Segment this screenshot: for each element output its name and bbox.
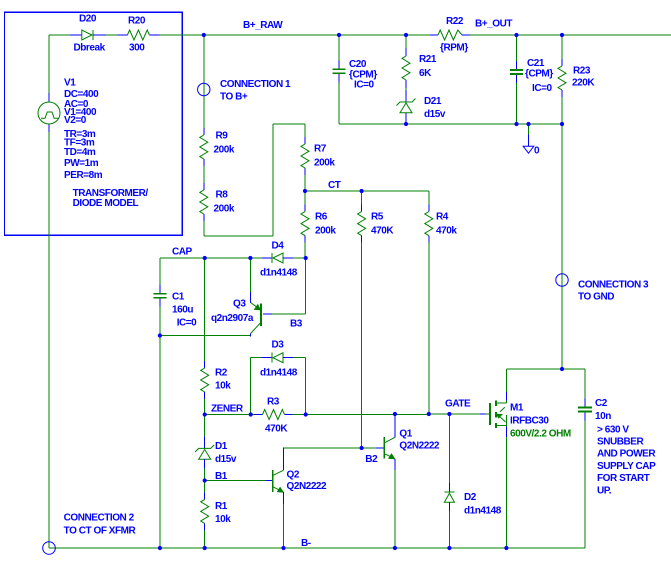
svg-text:R5: R5 bbox=[371, 212, 384, 223]
svg-text:TO B+: TO B+ bbox=[220, 91, 248, 102]
svg-text:10k: 10k bbox=[215, 381, 231, 392]
svg-text:R2: R2 bbox=[215, 368, 228, 379]
wire CT rail bbox=[305, 190, 429, 192]
label V1 params bbox=[64, 78, 103, 182]
connection 2 bubble bbox=[43, 542, 56, 555]
svg-text:R1: R1 bbox=[215, 501, 228, 512]
wire R2 branch bbox=[204, 258, 206, 361]
node B- / Q1 emitter bbox=[393, 546, 397, 550]
wire C1 top bbox=[159, 258, 161, 285]
wire C2 bottom to B- rail bbox=[584, 421, 586, 549]
capacitor C20 bbox=[333, 60, 346, 82]
ground symbol 0 bbox=[523, 146, 540, 157]
node drain loop / right drop bbox=[560, 367, 564, 371]
svg-text:PER=8m: PER=8m bbox=[64, 170, 103, 181]
label B2 bbox=[365, 454, 378, 465]
node ZENER / D3 right bbox=[304, 412, 308, 416]
svg-text:470k: 470k bbox=[436, 226, 457, 237]
label R3 bbox=[265, 397, 288, 435]
wire ground stem bbox=[528, 124, 530, 146]
capacitor C21 bbox=[510, 61, 523, 83]
svg-text:AND POWER: AND POWER bbox=[597, 448, 656, 459]
label R4 bbox=[436, 212, 457, 237]
vertical diode D2 bbox=[444, 483, 454, 511]
wire V1 top bbox=[48, 35, 50, 102]
svg-text:d15v: d15v bbox=[424, 109, 446, 120]
wire bottom rail B- bbox=[49, 547, 585, 549]
svg-text:CONNECTION 2: CONNECTION 2 bbox=[64, 513, 135, 524]
diode D20 bbox=[70, 30, 106, 40]
svg-text:470K: 470K bbox=[265, 424, 288, 435]
diode D4 bbox=[262, 253, 293, 263]
svg-text:Q1: Q1 bbox=[399, 429, 412, 440]
svg-text:{CPM}: {CPM} bbox=[525, 68, 553, 79]
wire Q2 emitter to B- rail bbox=[283, 504, 285, 548]
label transformer/diode model bbox=[73, 188, 149, 209]
node gate rail / R4 bbox=[427, 412, 431, 416]
svg-text:d1n4148: d1n4148 bbox=[260, 368, 298, 379]
transistor Q1 bbox=[384, 415, 395, 471]
svg-text:R4: R4 bbox=[436, 212, 449, 223]
label 300 bbox=[129, 43, 145, 54]
label B+_OUT bbox=[475, 19, 512, 30]
wire C20 branch bbox=[338, 35, 340, 60]
resistor R2 bbox=[201, 361, 209, 399]
resistor R9 bbox=[200, 128, 208, 166]
node CAP / R2 bbox=[203, 256, 207, 260]
svg-text:Dbreak: Dbreak bbox=[74, 43, 106, 54]
svg-text:C1: C1 bbox=[172, 292, 185, 303]
svg-text:470K: 470K bbox=[371, 226, 394, 237]
wire CT to R6 bbox=[304, 191, 306, 205]
svg-text:200k: 200k bbox=[214, 145, 235, 156]
resistor R8 bbox=[200, 183, 208, 221]
svg-text:160u: 160u bbox=[172, 304, 193, 315]
wire B2 rail bbox=[284, 447, 384, 449]
node B- / cap-loop bbox=[158, 546, 162, 550]
svg-text:R21: R21 bbox=[419, 54, 437, 65]
wire R6 to CAP node bbox=[304, 243, 306, 258]
svg-text:R9: R9 bbox=[216, 131, 229, 142]
wire Q1 emitter to B- rail bbox=[394, 470, 396, 548]
wire C21 bottom bbox=[516, 83, 518, 124]
wire ZENER rail bbox=[205, 413, 486, 416]
node B- / D2 bbox=[447, 546, 451, 550]
node CT / R5 bbox=[360, 189, 364, 193]
connection 3 bubble bbox=[556, 274, 568, 286]
node GATE / D2 bbox=[447, 412, 451, 416]
wire R21 to D21 bbox=[405, 88, 407, 90]
resistor R7 bbox=[301, 137, 309, 175]
svg-text:0: 0 bbox=[534, 146, 540, 157]
label R21 bbox=[419, 54, 437, 79]
wire C21 branch bbox=[516, 35, 518, 61]
label connection 2 bbox=[64, 513, 137, 537]
svg-text:CT: CT bbox=[328, 180, 341, 191]
wire R8 to corner loop bbox=[204, 124, 305, 236]
svg-text:CAP: CAP bbox=[172, 247, 193, 258]
wire D3 loop bbox=[251, 358, 306, 415]
wire top rail B+_RAW y=34 bbox=[49, 34, 671, 36]
resistor R3 bbox=[255, 410, 293, 420]
label D4 bbox=[260, 241, 298, 279]
node CT / R6 bbox=[303, 189, 307, 193]
label C1 bbox=[172, 292, 197, 329]
node gate rail / Q1 collector bbox=[393, 412, 397, 416]
label B1 bbox=[215, 471, 228, 482]
svg-text:IC=0: IC=0 bbox=[177, 317, 197, 328]
wire R1 to B- rail bbox=[204, 530, 206, 548]
svg-text:PW=1m: PW=1m bbox=[64, 158, 99, 169]
label R2 bbox=[215, 368, 231, 392]
wire R5 to B2 bbox=[361, 243, 363, 448]
svg-text:R3: R3 bbox=[267, 397, 280, 408]
wire ZENER down to D1 bbox=[204, 415, 206, 437]
label Q3 bbox=[211, 299, 254, 325]
wire M1 source to B- rail bbox=[505, 437, 507, 548]
capacitor C1 bbox=[153, 285, 166, 307]
svg-text:B+_RAW: B+_RAW bbox=[243, 20, 283, 31]
label D21 bbox=[424, 96, 446, 120]
wire B1 to R1 bbox=[204, 481, 206, 493]
svg-text:D3: D3 bbox=[272, 340, 285, 351]
wire R7 to CT bbox=[304, 175, 306, 191]
node top rail / C20 bbox=[337, 33, 341, 37]
resistor R21 bbox=[402, 48, 410, 88]
svg-text:CONNECTION 1: CONNECTION 1 bbox=[220, 79, 291, 90]
svg-text:TO CT OF XFMR: TO CT OF XFMR bbox=[64, 526, 137, 537]
svg-text:D20: D20 bbox=[79, 14, 97, 25]
label GATE bbox=[445, 399, 471, 410]
node B- / M1 source bbox=[504, 546, 508, 550]
svg-text:B1: B1 bbox=[215, 471, 228, 482]
mosfet M1 bbox=[486, 392, 507, 437]
wire cap-loop down to B- rail bbox=[159, 336, 161, 549]
node CAP / B3 drop bbox=[304, 256, 308, 260]
wire CT to R5 bbox=[361, 191, 363, 205]
svg-text:300: 300 bbox=[129, 43, 145, 54]
svg-text:10n: 10n bbox=[595, 411, 611, 422]
svg-text:d15v: d15v bbox=[215, 454, 237, 465]
node mid rail / ground bbox=[526, 122, 530, 126]
svg-text:C2: C2 bbox=[595, 398, 608, 409]
svg-text:R8: R8 bbox=[216, 190, 229, 201]
node CAP / Q3 emitter bbox=[248, 256, 252, 260]
svg-text:d1n4148: d1n4148 bbox=[464, 506, 502, 517]
wire CAP node down to B3 corner bbox=[263, 258, 306, 314]
wire R21 branch bbox=[405, 35, 407, 48]
wire connection1 branch x=204 bbox=[203, 35, 205, 128]
label D3 bbox=[260, 340, 298, 379]
svg-text:R22: R22 bbox=[446, 16, 464, 27]
label Q2 bbox=[287, 470, 328, 493]
svg-text:> 630 V: > 630 V bbox=[597, 424, 629, 435]
wire C20 bottom bbox=[338, 82, 340, 124]
label C20 bbox=[349, 59, 377, 91]
label D1 bbox=[215, 441, 237, 465]
wire drain loop bbox=[506, 369, 585, 399]
resistor R23 bbox=[558, 59, 566, 97]
resistor R5 bbox=[358, 205, 366, 243]
label 600V rating bbox=[510, 429, 571, 440]
svg-text:Q3: Q3 bbox=[233, 299, 246, 310]
capacitor C2 bbox=[578, 399, 592, 421]
svg-text:10k: 10k bbox=[215, 514, 231, 525]
label R8 bbox=[214, 190, 235, 215]
svg-text:600V/2.2 OHM: 600V/2.2 OHM bbox=[510, 429, 571, 440]
label R1 bbox=[215, 501, 231, 525]
svg-text:D21: D21 bbox=[424, 96, 442, 107]
label B3 bbox=[290, 319, 303, 330]
svg-text:DIODE MODEL: DIODE MODEL bbox=[73, 198, 139, 209]
node top rail / R21 bbox=[404, 33, 408, 37]
source V1 bbox=[38, 102, 60, 124]
resistor R20 bbox=[117, 30, 159, 40]
label R6 bbox=[315, 212, 336, 237]
label B- bbox=[301, 538, 311, 549]
wire right drop to connection 3 and drain loop bbox=[561, 124, 563, 369]
svg-text:UP.: UP. bbox=[597, 485, 612, 496]
label CT bbox=[328, 180, 341, 191]
svg-text:R20: R20 bbox=[128, 16, 146, 27]
svg-text:DC=400: DC=400 bbox=[64, 89, 99, 100]
diode D3 bbox=[262, 353, 293, 363]
svg-text:B2: B2 bbox=[365, 454, 378, 465]
label R23 bbox=[572, 66, 595, 89]
node top rail / connection1 bbox=[202, 33, 206, 37]
svg-text:V2=0: V2=0 bbox=[64, 115, 87, 126]
node B1 bbox=[203, 478, 207, 482]
svg-text:200k: 200k bbox=[315, 226, 336, 237]
label R22 bbox=[440, 16, 468, 53]
label R20 bbox=[128, 16, 146, 27]
wire D1 to B1 bbox=[204, 468, 206, 480]
svg-text:{RPM}: {RPM} bbox=[440, 42, 468, 53]
label R7 bbox=[314, 144, 335, 169]
wire cap-loop bottom bbox=[160, 335, 251, 337]
label B+_RAW bbox=[243, 20, 283, 31]
svg-text:FOR START: FOR START bbox=[597, 473, 650, 484]
transformer/diode model box bbox=[5, 12, 183, 235]
svg-text:R23: R23 bbox=[573, 66, 591, 77]
svg-text:IC=0: IC=0 bbox=[532, 83, 552, 94]
node mid rail / R23 bbox=[560, 122, 564, 126]
wire D2 branch bbox=[448, 414, 450, 548]
label R5 bbox=[371, 212, 394, 237]
zener D21 bbox=[397, 90, 416, 122]
wire R23 to mid rail bbox=[561, 97, 563, 124]
svg-text:B-: B- bbox=[301, 538, 311, 549]
svg-text:D4: D4 bbox=[272, 241, 285, 252]
svg-text:R7: R7 bbox=[314, 144, 327, 155]
label R9 bbox=[214, 131, 235, 156]
svg-text:D1: D1 bbox=[215, 441, 228, 452]
label C2 bbox=[595, 398, 611, 422]
wire CAP to Q3 emitter bbox=[249, 258, 251, 292]
label M1 bbox=[510, 403, 549, 427]
node ZENER / R2 bbox=[203, 412, 207, 416]
svg-text:220K: 220K bbox=[572, 78, 595, 89]
wire mid rail bbox=[339, 123, 562, 125]
svg-text:R6: R6 bbox=[315, 212, 328, 223]
svg-text:IRFBC30: IRFBC30 bbox=[510, 416, 549, 427]
svg-text:200k: 200k bbox=[214, 204, 235, 215]
zener D1 bbox=[195, 436, 214, 468]
wire CT corner to R4 bbox=[428, 191, 430, 205]
label D2 bbox=[464, 492, 502, 517]
svg-text:q2n2907a: q2n2907a bbox=[211, 313, 254, 324]
svg-text:TO GND: TO GND bbox=[578, 292, 614, 303]
wire R4 to gate rail bbox=[428, 243, 430, 414]
node top rail / R23 bbox=[560, 33, 564, 37]
svg-text:M1: M1 bbox=[510, 403, 524, 414]
svg-text:GATE: GATE bbox=[445, 399, 471, 410]
svg-text:Q2N2222: Q2N2222 bbox=[399, 441, 440, 452]
wire R2 to ZENER bbox=[204, 399, 206, 415]
node top rail / C21 B+_OUT bbox=[514, 33, 518, 37]
label D20 bbox=[79, 14, 97, 25]
wire R9-R8 gap bbox=[203, 166, 205, 183]
label connection 3 bbox=[578, 280, 649, 303]
node B- / Q2 emitter bbox=[281, 546, 285, 550]
svg-text:SUPPLY CAP: SUPPLY CAP bbox=[597, 461, 656, 472]
wire R23 branch bbox=[561, 35, 563, 59]
wire V1 bottom to connection 2 bbox=[48, 124, 50, 548]
label ZENER bbox=[211, 404, 244, 415]
svg-text:CONNECTION 3: CONNECTION 3 bbox=[578, 280, 649, 291]
resistor R4 bbox=[425, 205, 433, 243]
resistor R6 bbox=[301, 205, 309, 243]
node B- / R1 bbox=[203, 546, 207, 550]
svg-text:200k: 200k bbox=[314, 158, 335, 169]
wire D21 to mid rail bbox=[405, 122, 407, 125]
svg-text:B+_OUT: B+_OUT bbox=[475, 19, 512, 30]
label snubber note bbox=[597, 424, 656, 496]
node mid rail / C21 bbox=[514, 122, 518, 126]
label CAP bbox=[172, 247, 193, 258]
svg-text:ZENER: ZENER bbox=[211, 404, 244, 415]
connection 1 bubble bbox=[198, 83, 210, 95]
label connection 1 bbox=[220, 79, 291, 102]
wire CAP rail bbox=[160, 257, 306, 259]
node B2 / R5 bbox=[360, 446, 364, 450]
svg-text:D2: D2 bbox=[464, 492, 477, 503]
node cap-loop / C1 bbox=[158, 333, 162, 337]
transistor Q2 bbox=[273, 448, 284, 504]
svg-text:TD=4m: TD=4m bbox=[64, 147, 96, 158]
label C21 bbox=[525, 58, 553, 94]
node mid rail / D21 bbox=[404, 122, 408, 126]
svg-text:Q2: Q2 bbox=[287, 470, 300, 481]
resistor R1 bbox=[201, 492, 209, 530]
svg-text:SNUBBER: SNUBBER bbox=[597, 436, 645, 447]
wire B1 to Q2 base bbox=[205, 480, 272, 482]
svg-text:B3: B3 bbox=[290, 319, 303, 330]
svg-text:6K: 6K bbox=[419, 68, 432, 79]
node ZENER / D3 left bbox=[249, 412, 253, 416]
label Dbreak bbox=[74, 43, 106, 54]
svg-text:Q2N2222: Q2N2222 bbox=[287, 481, 328, 492]
resistor R22 bbox=[430, 30, 470, 40]
svg-text:IC=0: IC=0 bbox=[354, 80, 374, 91]
transistor Q3 bbox=[250, 292, 261, 337]
svg-text:d1n4148: d1n4148 bbox=[260, 268, 298, 279]
label Q1 bbox=[399, 429, 440, 452]
wire C1 bottom to cap-loop bbox=[159, 307, 161, 336]
svg-text:V1: V1 bbox=[64, 78, 76, 89]
